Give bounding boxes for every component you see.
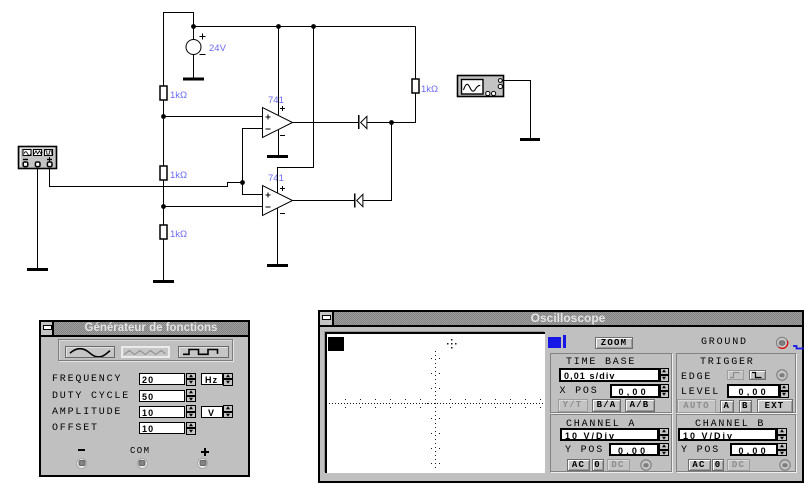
wire U2 V- to ground [277,208,279,265]
node rail U2 supply [311,24,316,29]
fg minimize button [41,322,54,335]
zoom button [595,337,633,349]
resistor R4 [412,79,419,93]
fg terminals [76,458,87,469]
fg DUTY CYCLE row [52,391,130,402]
svg-text:741: 741 [268,173,284,184]
wire R1 to R2 [163,100,165,166]
fg triangle button [121,346,170,358]
ground under FG [27,268,48,271]
scope ground terminal with red wire stub [775,336,789,350]
wire U2 V+ supply riser [278,27,314,194]
fg terminal labels [78,449,85,451]
TRIGGER group [676,353,796,413]
fg square button [178,346,229,358]
channel marker blue square [548,337,561,348]
scope title bar [334,312,802,325]
wire scope ground terminal [502,81,531,140]
function generator icon [19,147,57,169]
diode D1 [359,115,392,129]
node C (D1 cathode junction) [389,120,394,125]
oscilloscope panel window [318,310,804,483]
ground under scope wire [520,138,540,141]
TIME BASE group [550,353,672,413]
wire FG COM to ground [37,168,39,269]
resistor R1 [160,86,167,100]
ground under battery [183,78,204,81]
blue wire stub at window edge [793,345,805,352]
op-amp U2 741 [263,173,293,216]
wire node D to U2 + input [243,183,263,195]
fg AMPLITUDE row [52,407,122,418]
node A (R1/R2 to U1 +) [161,114,166,119]
node B (R2/R3 to U2 -) [161,204,166,209]
function generator panel window [39,320,250,477]
fg waveform selector frame [58,339,233,361]
CHANNEL A group [550,414,672,472]
ground under R3 [153,280,174,283]
wire R4 down to corner [392,93,416,123]
wire node C down to D2 row [363,123,392,201]
battery V1 24V [186,27,227,79]
wire U1 V- to ground [278,130,280,156]
wire FG + output to node D [50,168,243,187]
node D (feedback junction) [240,180,245,185]
svg-text:1kΩ: 1kΩ [170,229,187,240]
svg-text:1kΩ: 1kΩ [170,170,187,181]
circuit schematic svg [0,0,810,305]
wire U1 - input to node D [243,129,263,183]
wire node B to U2 - input [164,206,263,208]
node rail U1 supply [276,24,281,29]
wire top-left loop [164,13,194,87]
fg title bar [54,322,248,335]
node at battery top [191,24,196,29]
svg-text:1kΩ: 1kΩ [170,90,187,101]
resistor R2 [160,166,167,180]
svg-text:24V: 24V [209,43,227,54]
fg OFFSET row [52,423,99,434]
fg sine button (selected) [65,346,115,358]
wire R3 to ground [163,239,165,281]
CHANNEL B group [676,414,796,472]
scope minimize button [320,312,334,325]
scope display [325,332,545,473]
op-amp U1 741 [263,95,293,138]
wire node A to U1 + input [164,116,263,118]
fg FREQUENCY row [52,374,122,385]
wire rail to R4 [415,27,417,80]
wire U1 V+ supply [278,27,280,116]
wire V+ rail [194,26,416,28]
ground under U1 [267,155,288,158]
diode D2 [355,194,363,208]
wire U1 output to D1 [293,122,359,124]
wire U2 output to D2 [293,200,355,202]
oscilloscope icon [458,76,504,97]
svg-text:1kΩ: 1kΩ [421,84,438,95]
resistor R3 [160,225,167,239]
ground label [701,337,748,348]
svg-text:741: 741 [268,95,284,106]
ground under U2 [267,264,288,267]
wire R2 to R3 [163,180,165,225]
